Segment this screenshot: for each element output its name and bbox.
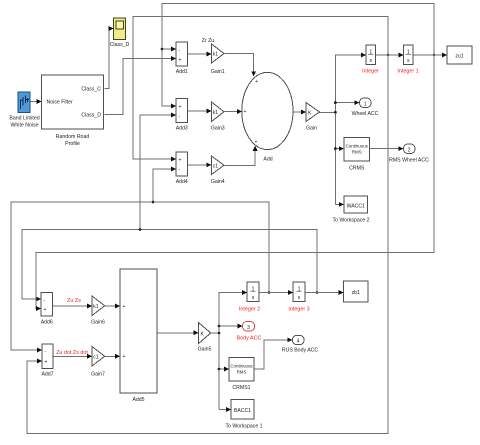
svg-text:Gain: Gain — [306, 126, 317, 132]
svg-text:RUS Body ACC: RUS Body ACC — [282, 348, 319, 354]
gain block Gain3 k1 — [211, 102, 225, 132]
svg-text:RMS Wheel ACC: RMS Wheel ACC — [389, 158, 429, 164]
svg-text:s: s — [369, 58, 372, 64]
svg-text:Gain4: Gain4 — [211, 179, 225, 185]
svg-text:1: 1 — [364, 101, 367, 107]
output block zb1 — [344, 281, 369, 302]
svg-text:To Workspace 2: To Workspace 2 — [332, 218, 369, 224]
svg-text:+: + — [244, 109, 247, 115]
node: junction CRMS1 tap — [218, 368, 221, 371]
wire: Gain1 output to Add ellipse top input — [224, 54, 254, 77]
svg-text:Integer 2: Integer 2 — [239, 307, 260, 313]
wire: tap to CRMS1 input — [219, 368, 229, 370]
wire: CRMS output to RMS Wheel ACC outport — [370, 148, 404, 150]
svg-text:Zr Zu: Zr Zu — [202, 38, 215, 44]
wire: Zu feedback from Integer 1 output up over top to left vertical — [162, 4, 434, 107]
svg-text:+: + — [123, 354, 126, 360]
svg-text:+: + — [45, 360, 48, 366]
svg-text:RMS: RMS — [352, 150, 362, 155]
block BACC1 To Workspace 1 — [225, 400, 262, 430]
block CRMS1 Continuous RMS — [229, 358, 254, 392]
gain block Gain5 K — [198, 323, 212, 353]
svg-text:Class_D: Class_D — [81, 113, 101, 119]
svg-text:CRMS1: CRMS1 — [232, 385, 250, 391]
wire: Gain5 output to vertical bus 2 — [211, 332, 219, 334]
svg-text:WACC1: WACC1 — [347, 204, 365, 210]
wire: vertical bus up to Integer input — [335, 55, 365, 204]
node: junction CRMS tap — [334, 147, 337, 150]
svg-text:+: + — [179, 104, 182, 110]
wire: Add6 output to Gain6 — [53, 305, 92, 307]
svg-text:Random Road: Random Road — [56, 134, 90, 140]
svg-text:RMS: RMS — [237, 370, 247, 375]
svg-text:Continuous: Continuous — [230, 364, 253, 369]
svg-text:Gain5: Gain5 — [198, 347, 212, 353]
wire: tap to Body ACC outport — [219, 325, 242, 327]
svg-text:Add3: Add3 — [176, 126, 188, 132]
wire: Gain3 output to Add ellipse left input — [224, 111, 242, 113]
wire: Add5 output to Gain5 — [157, 332, 198, 334]
svg-text:s: s — [407, 58, 410, 64]
svg-text:zu1: zu1 — [455, 54, 463, 60]
wire: tap to Wheel ACC outport — [335, 102, 359, 104]
svg-text:CRMS: CRMS — [349, 166, 365, 172]
integrator block Integer 1 — [397, 45, 418, 75]
svg-text:Gain1: Gain1 — [211, 69, 225, 75]
node: junction Zu at Add1 input 1 — [161, 48, 164, 51]
sum ellipse block Add — [242, 72, 293, 162]
svg-text:Zu dot Zs dot: Zu dot Zs dot — [56, 350, 88, 356]
sum block Add4 — [176, 152, 188, 185]
svg-text:BACC1: BACC1 — [234, 408, 251, 414]
svg-text:Wheel ACC: Wheel ACC — [352, 111, 379, 117]
subsystem block Random Road Profile — [42, 75, 104, 147]
svg-text:Zu Zs: Zu Zs — [67, 298, 81, 304]
wire: Zu dot feedback from Integer output up over top to Add4 input 1 — [133, 17, 388, 160]
integrator block Integer — [362, 45, 379, 75]
svg-text:+: + — [255, 140, 258, 146]
wire: Gain output to vertical bus — [320, 111, 336, 113]
wire: Integer 1 output to zu1 — [413, 54, 447, 56]
outport 1 Wheel ACC — [352, 98, 379, 117]
node: junction Zs at Integer 3 output — [316, 291, 319, 294]
wire: Zu branch to Add1 input 1 — [162, 48, 176, 50]
svg-text:Add: Add — [263, 157, 272, 163]
gain block Gain1 k1 — [211, 44, 225, 75]
svg-text:s: s — [252, 295, 255, 301]
svg-text:c1: c1 — [93, 354, 99, 360]
svg-text:2: 2 — [408, 147, 411, 153]
node: junction Zu at Integer 1 output — [433, 54, 436, 57]
svg-text:k1: k1 — [213, 110, 219, 116]
wire: Add3 output to Gain3 — [188, 110, 212, 112]
svg-text:zb1: zb1 — [352, 290, 360, 296]
svg-text:+: + — [123, 304, 126, 310]
wire: tap to CRMS input — [335, 148, 343, 150]
wire: CRMS1 output up to RUS Body ACC outport — [254, 340, 292, 369]
scope block Class_D — [110, 18, 130, 48]
svg-text:Gain3: Gain3 — [211, 126, 225, 132]
node: junction Zs dot branch — [152, 201, 155, 204]
svg-text:Noise Filter: Noise Filter — [47, 100, 74, 106]
node: junction Gain5 output on bus 2 — [218, 332, 221, 335]
gain block Gain4 c1 — [211, 156, 225, 185]
wire: Zu dot feedback down right side and along bottom to Add7 input 2 — [27, 55, 388, 434]
svg-text:+: + — [44, 307, 47, 313]
svg-text:c1: c1 — [213, 163, 219, 169]
wire: Zu feedback down right side to Add6 input 2 — [36, 55, 434, 309]
svg-text:Band Limited: Band Limited — [9, 116, 39, 122]
svg-text:Class_D: Class_D — [110, 42, 130, 48]
svg-text:Integer 3: Integer 3 — [288, 307, 309, 313]
node: junction Wheel ACC tap — [334, 101, 337, 104]
sum block Add5 — [120, 269, 157, 403]
svg-text:s: s — [298, 295, 301, 301]
svg-text:Add5: Add5 — [132, 397, 144, 403]
gain block Gain7 c1 — [91, 347, 105, 378]
source block Band Limited White Noise — [9, 92, 39, 129]
svg-text:4: 4 — [297, 339, 300, 345]
svg-text:White Noise: White Noise — [11, 123, 39, 129]
outport 4 RUS Body ACC — [282, 336, 319, 354]
node: junction Gain output on bus — [334, 111, 337, 114]
wire: Gain7 output to Add5 input 2 — [105, 355, 120, 357]
svg-text:To Workspace 1: To Workspace 1 — [225, 424, 262, 430]
svg-text:Add4: Add4 — [176, 179, 188, 185]
node: junction Zu dot at Integer output — [387, 54, 390, 57]
svg-text:Integer: Integer — [362, 69, 379, 75]
wire: vertical bus 2 up to Integer 2 input — [219, 293, 247, 410]
wire: Zs dot branch up to Add4 input 2 — [153, 169, 176, 202]
wire: Class_D output to Add1 input 2 — [105, 59, 176, 115]
integrator block Integer 3 — [288, 282, 309, 313]
outport 2 RMS Wheel ACC — [389, 144, 429, 164]
sum block Add1 — [176, 42, 188, 75]
wire: Add4 output to Gain4 — [188, 164, 212, 166]
svg-text:k1: k1 — [93, 304, 99, 310]
block WACC1 To Workspace 2 — [332, 196, 369, 224]
wire: Zs dot line from Integer 2 output around left to Add7 input 1 — [11, 202, 269, 350]
sum block Add6 — [41, 293, 53, 326]
svg-text:Class_C: Class_C — [81, 87, 101, 93]
outport 3 Body ACC (red) — [237, 322, 262, 342]
wire: Add ellipse output to Gain — [293, 111, 306, 113]
sum block Add7 — [41, 344, 53, 378]
wire: Class_C output up to scope Class_D — [105, 29, 114, 89]
block CRMS Continuous RMS — [344, 138, 370, 172]
wire: Integer 3 output to zb1 — [305, 292, 343, 294]
sum block Add3 — [176, 99, 188, 132]
wire: Integer output to Integer 1 — [376, 54, 404, 56]
wire: Add7 output to Gain7 — [53, 355, 92, 357]
svg-text:3: 3 — [247, 325, 250, 331]
svg-text:Gain6: Gain6 — [91, 320, 105, 326]
svg-text:Gain7: Gain7 — [91, 372, 105, 378]
node: junction Zs branch — [139, 228, 142, 231]
svg-text:Add1: Add1 — [176, 69, 188, 75]
svg-text:Body ACC: Body ACC — [237, 336, 262, 342]
wire: bus 2 bottom to BACC1 input — [219, 409, 231, 411]
wire: Integer 2 output to Integer 3 — [259, 292, 293, 294]
output block zu1 — [447, 46, 472, 64]
wire: Gain4 output to Add ellipse bottom input — [224, 146, 255, 165]
node: junction Zs dot at Integer 2 output — [268, 291, 271, 294]
svg-text:k1: k1 — [213, 52, 219, 58]
wire: Band Limited White Noise to Random Road Profile — [30, 101, 41, 103]
svg-text:Continuous: Continuous — [346, 144, 369, 149]
svg-text:Add7: Add7 — [41, 372, 53, 378]
svg-text:+: + — [255, 79, 258, 85]
svg-text:+: + — [179, 57, 182, 63]
wire: Add1 output to Gain1 — [188, 53, 212, 55]
wire: Gain6 output to Add5 input 1 — [105, 305, 120, 307]
svg-text:Add6: Add6 — [41, 320, 53, 326]
svg-text:+: + — [179, 158, 182, 164]
svg-text:Profile: Profile — [65, 141, 80, 147]
svg-text:Integer 1: Integer 1 — [397, 69, 418, 75]
gain block Gain6 k1 — [91, 296, 105, 326]
gain block Gain K — [306, 103, 320, 132]
wire: bus bottom to WACC1 input — [335, 203, 343, 205]
integrator block Integer 2 — [239, 282, 260, 313]
wire: Zs line from Integer 3 output around left to Add6 input 1 — [22, 230, 317, 300]
wire: Zs branch up to Add3 input 2 — [140, 115, 176, 230]
node: junction Body ACC tap — [218, 325, 221, 328]
